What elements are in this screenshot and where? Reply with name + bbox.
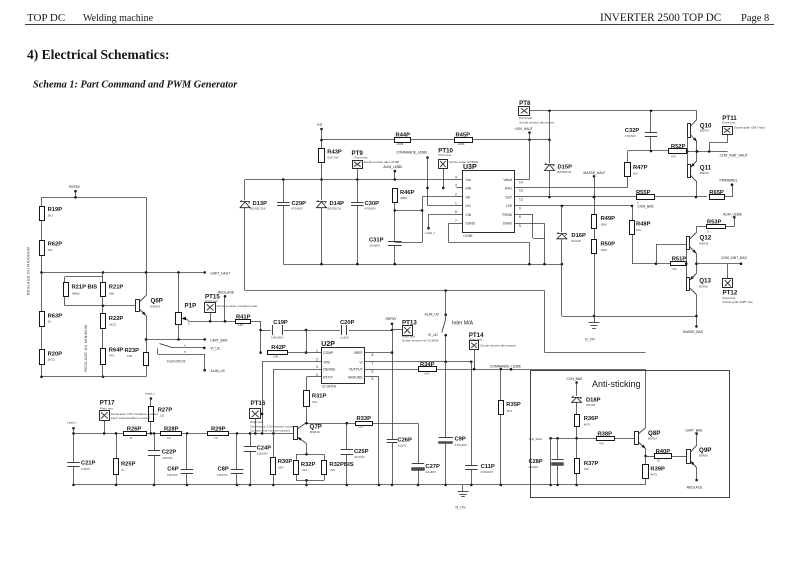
diode D18P [572,383,601,415]
ground M_15V left [585,316,600,342]
wire OUT net to output [522,196,637,199]
wire low driver base net [632,244,686,265]
resistor R52P [669,144,687,158]
svg-text:ALIM_L6386: ALIM_L6386 [723,212,742,216]
resistor R62P [40,241,63,256]
resistor R46P [393,189,415,242]
svg-text:5K3: 5K3 [48,213,54,217]
resistor R23P [125,348,149,366]
svg-text:HVG: HVG [505,186,513,190]
resistor R49P [592,215,616,229]
svg-text:Sonde tension alim basse: Sonde tension alim basse [480,343,516,347]
svg-text:M_15V: M_15V [585,338,596,342]
resistor R64P [101,348,124,365]
resistor R21P [101,283,124,297]
node REF5V [69,185,81,197]
svg-text:ALIM_L6386: ALIM_L6386 [383,165,402,169]
wire Vboot [522,179,530,181]
resistor R41P [236,314,251,327]
point test PT8 [519,100,555,125]
switch PalOnOff104 [158,343,207,371]
svg-text:47: 47 [129,436,133,440]
capacitor C21P [67,433,95,485]
svg-text:100K: 100K [458,142,466,146]
svg-text:BSR14: BSR14 [151,304,161,308]
svg-text:IN4148: IN4148 [571,239,580,243]
svg-text:CON_BAS: CON_BAS [567,377,584,381]
svg-text:1: 1 [316,348,318,352]
transistor Q7P [294,423,322,444]
wire CIN branch [427,214,456,229]
svg-text:R21P BIS: R21P BIS [72,285,98,291]
svg-text:TOP DC: TOP DC [27,12,65,24]
wire Q7P emitter to R32P pair [296,444,325,485]
resistor R20P [40,350,63,365]
svg-text:R37P: R37P [584,461,599,467]
wire R21P pair bottom to Q6P base [65,297,136,307]
resistor R25P [114,433,136,485]
wire P1P wiper to R41P [189,320,235,323]
svg-text:C8P: C8P [218,467,229,473]
svg-text:Anti-sticking: Anti-sticking [592,379,641,389]
header: document name [83,13,154,24]
U3P pin stubs and numbers [455,175,523,228]
resistor R44P [395,132,411,146]
transistor Q13 [687,274,712,295]
wire high-side rail [530,110,697,113]
svg-text:47: 47 [121,468,125,472]
node ALIM_L6386 label top [383,165,402,179]
wire Q6P emitter / R23P branch [145,316,148,377]
svg-text:4K75: 4K75 [584,422,591,426]
svg-text:Point test: Point test [355,156,368,160]
U2P pin stubs and numbers [315,348,374,381]
capacitor C25P [341,423,369,485]
svg-text:PT16: PT16 [251,400,266,407]
header rule [25,24,774,26]
resistor R42P [268,345,316,358]
resistor R33P [356,416,373,429]
svg-text:R22P: R22P [109,316,124,322]
svg-text:REF5V: REF5V [69,185,81,189]
wire net COM_IGBT_HAUT [686,135,747,158]
svg-text:8: 8 [372,353,374,357]
wire LIN branch [428,205,457,207]
svg-text:R62P: R62P [48,242,63,248]
point test PT11 [722,115,765,135]
svg-text:REGLAGE: REGLAGE [218,291,235,295]
svg-text:C22P: C22P [162,450,177,456]
svg-text:10n63V: 10n63V [217,473,229,477]
wire Anti_Stick net [529,437,635,485]
svg-text:BSR14: BSR14 [700,129,709,133]
svg-text:LIMIT_HAUT: LIMIT_HAUT [211,271,231,275]
resistor R55P [636,190,707,205]
svg-text:221: 221 [358,425,363,429]
svg-text:COM_IGBT_BAS: COM_IGBT_BAS [721,256,747,260]
svg-text:PRIMAIRE1: PRIMAIRE1 [720,179,738,183]
svg-text:R34P: R34P [420,362,435,368]
potentiometer P1P [176,272,197,339]
wire left vertical bus [41,197,43,376]
svg-text:47n63V: 47n63V [354,455,366,459]
svg-text:Vboot: Vboot [503,178,512,182]
svg-text:R26P: R26P [127,426,142,432]
svg-text:470: 470 [330,468,335,472]
node +15V_HAUT [514,127,533,180]
resistor R50P [592,240,616,254]
svg-text:C11P: C11P [481,464,495,470]
svg-text:10K: 10K [238,323,244,327]
resistor R38P [597,431,615,445]
svg-text:R20P: R20P [48,352,63,358]
wire MASSE_HALF vertical [593,176,596,317]
node PRIMAIRE1 [720,179,738,183]
svg-text:6: 6 [519,215,521,219]
svg-text:CIN: CIN [466,213,472,217]
svg-text:PT8: PT8 [519,100,531,107]
node Limit_I at U3P [425,231,434,235]
svg-text:100: 100 [633,172,638,176]
wire net LIMIT_HAUT [40,271,230,275]
svg-text:R44P: R44P [396,132,411,138]
svg-text:C21P: C21P [81,461,96,467]
svg-text:1u10V: 1u10V [398,444,408,448]
svg-text:6M62: 6M62 [72,292,80,296]
op-amp U2P (PWM controller UC3845N) [321,341,364,389]
wire ground rail [72,484,645,487]
svg-text:3: 3 [316,365,318,369]
resistor R21P BIS [64,283,98,297]
svg-text:Sonde tension alim L6386: Sonde tension alim L6386 [364,160,400,164]
schema subtitle [33,80,238,91]
svg-text:R21P: R21P [109,285,124,291]
wire net LIMIT_BAS [146,338,228,342]
svg-text:22u40V: 22u40V [426,470,438,474]
svg-text:C27P: C27P [425,464,440,470]
svg-text:221: 221 [302,468,307,472]
svg-text:BSR16: BSR16 [699,284,708,288]
capacitor C6P [167,433,193,485]
svg-text:M_15V: M_15V [456,506,467,510]
transistor Q12 [687,233,712,254]
svg-text:Vcc: Vcc [466,178,472,182]
node ALIM_UC [211,369,226,373]
svg-text:BZV55C3V6: BZV55C3V6 [250,207,266,211]
svg-text:1K: 1K [657,458,661,462]
capacitor C22P [148,433,177,485]
node REGLACE [687,468,704,490]
node COMMANDE_L6386 label top [396,150,429,205]
svg-text:221: 221 [48,248,53,252]
svg-text:SD: SD [466,195,471,199]
svg-text:330K: 330K [400,196,408,200]
wire SGND branch [449,223,530,264]
transistor Q11 [688,161,712,182]
point test PT10 [438,147,478,189]
capacitor C19P [271,320,288,340]
svg-text:470u30V: 470u30V [455,443,468,447]
point test PT13 [392,319,439,342]
svg-text:P1P: P1P [185,303,197,310]
svg-text:Imes_I: Imes_I [145,391,154,395]
svg-text:OUT: OUT [505,195,512,199]
svg-text:63K 2W: 63K 2W [327,156,338,160]
wire Q10 Q11 bases [686,138,689,165]
resistor R63P [40,312,63,327]
svg-text:5: 5 [372,377,374,381]
svg-text:R43P: R43P [327,149,342,155]
node VI_UC [210,347,221,351]
svg-text:3: 3 [455,184,457,188]
resistor R28P [161,426,182,440]
node LIMIT_BAS at Q9P [686,429,704,446]
svg-text:10n63V: 10n63V [167,473,179,477]
svg-text:10: 10 [167,436,171,440]
point test PT16 [250,400,296,434]
resistor R45P [455,132,473,146]
capacitor C28P [529,438,564,485]
switch Inter M/A [425,312,474,362]
capacitor C30P [351,180,379,265]
rotated label REGLAGE DU MAXIMUM [27,247,31,295]
svg-text:R53P: R53P [707,219,722,225]
wire Vcc rail into U3P [245,178,457,181]
svg-text:2: 2 [316,358,318,362]
svg-text:C25P: C25P [354,449,369,455]
svg-text:R63P: R63P [48,313,63,319]
svg-text:ALIM_UC: ALIM_UC [211,369,226,373]
capacitor C31P [369,238,402,265]
capacitor C32P [625,111,657,151]
svg-text:C24P: C24P [257,445,272,451]
svg-text:HIN: HIN [466,186,472,190]
svg-text:Point test: Point test [100,406,113,410]
svg-text:R52P: R52P [671,144,686,150]
svg-text:221: 221 [312,400,317,404]
svg-text:ISENSE: ISENSE [323,368,336,372]
capacitor C20P [340,320,355,340]
svg-text:IN4148: IN4148 [586,403,595,407]
resistor R43P [319,129,342,200]
svg-text:Page 8: Page 8 [741,13,769,24]
svg-text:R48P: R48P [636,222,651,228]
svg-text:R19P: R19P [48,207,63,213]
svg-text:VI_UC: VI_UC [428,333,439,337]
svg-text:BSR16: BSR16 [310,430,320,434]
svg-text:+15V_HAUT: +15V_HAUT [514,127,533,131]
resistor R65P [709,183,733,199]
svg-text:470n50V: 470n50V [365,207,376,211]
wire net COM_BAS [522,205,654,209]
wire net COM_IGBT_BAS [696,256,747,278]
svg-text:Sonde tension ref UC3845: Sonde tension ref UC3845 [402,338,439,342]
svg-text:Point test: Point test [722,121,735,125]
svg-text:R38P: R38P [598,431,613,437]
point test PT12 [723,279,754,305]
wire gate drive HVG net [522,150,669,188]
svg-text:BSR16: BSR16 [699,454,708,458]
wire SD branch [395,197,457,243]
transistor Q8P [635,428,661,449]
svg-text:100: 100 [636,228,641,232]
wire Q8P emitter R40P [644,449,686,458]
wire C19P C20P net [261,329,394,354]
svg-text:470n50V: 470n50V [292,207,303,211]
wire Q12 Q13 bases [685,250,688,278]
node REGLAGE [218,291,235,322]
svg-text:DvNG: DvNG [503,222,512,226]
wire low-side return [562,316,697,318]
svg-text:100K: 100K [601,248,608,252]
point test PT17 [100,400,158,434]
svg-text:3K3: 3K3 [507,409,513,413]
svg-text:REGLAGE DU MAXIMUM: REGLAGE DU MAXIMUM [27,247,31,295]
node ALIM_L6386 right [723,212,742,226]
svg-text:COMMANDE_L6386: COMMANDE_L6386 [490,364,521,368]
svg-text:RT/CT: RT/CT [323,376,333,380]
svg-text:R36P: R36P [584,416,599,422]
svg-text:Inject setai limitation couran: Inject setai limitation courant [111,416,150,420]
svg-text:Point test: Point test [439,153,452,157]
svg-text:VFB: VFB [323,360,330,364]
node CON_BAS [567,377,584,384]
svg-text:R41P: R41P [236,314,251,320]
svg-text:COM_IGBT_HAUT: COM_IGBT_HAUT [720,153,748,157]
svg-text:R45P: R45P [456,132,471,138]
resistor R32PBIS [322,461,354,475]
svg-text:R28P: R28P [164,426,179,432]
svg-text:COM_BAS: COM_BAS [638,205,655,209]
svg-text:R50P: R50P [601,241,616,247]
svg-text:VI: VI [359,360,362,364]
capacitor C29P [277,180,306,265]
svg-text:Welding machine: Welding machine [83,13,154,24]
resistor R53P [696,219,725,233]
node Imes_I [145,391,154,400]
svg-text:OUTPUT: OUTPUT [349,368,363,372]
transistor Q6P [136,296,163,316]
svg-text:C19P: C19P [273,320,288,326]
svg-text:SGND: SGND [466,222,476,226]
svg-text:1u16V: 1u16V [340,336,350,340]
svg-text:R35P: R35P [506,402,521,408]
resistor R34P [371,362,437,376]
header: manufacturer name [27,12,65,24]
svg-text:7: 7 [372,362,374,366]
svg-text:Sonde grille IGBT haut: Sonde grille IGBT haut [734,125,765,129]
wire MASSE return rail [283,263,563,266]
node REF5V at PT13 [386,317,398,325]
svg-text:470n50V: 470n50V [625,134,636,138]
svg-text:100K: 100K [397,142,405,146]
resistor R19P [40,207,63,221]
svg-text:470: 470 [671,155,676,159]
svg-text:BSR14: BSR14 [700,241,709,245]
svg-text:680: 680 [109,292,114,296]
svg-text:14: 14 [519,180,523,184]
svg-text:C31P: C31P [369,238,384,244]
svg-text:R42P: R42P [271,345,286,351]
svg-text:REGLAGE DU MINIMUM: REGLAGE DU MINIMUM [84,324,88,371]
svg-text:10: 10 [214,436,218,440]
svg-text:470: 470 [672,267,677,271]
svg-text:4K75: 4K75 [650,473,657,477]
resistor R47P [625,163,648,177]
svg-text:470: 470 [109,354,114,358]
svg-text:10K: 10K [127,354,133,358]
capacitor C27P [412,464,441,485]
svg-text:R25P: R25P [121,462,136,468]
svg-text:C6P: C6P [167,467,178,473]
svg-text:Limit_I: Limit_I [67,420,76,424]
svg-text:4: 4 [316,373,318,377]
svg-text:R49P: R49P [601,216,616,222]
svg-text:10n50V: 10n50V [370,244,382,248]
wire VI net [371,361,473,364]
resistor R27P [149,399,173,434]
resistor R51P [671,256,687,271]
svg-text:Schema 1: Part Command and PWM: Schema 1: Part Command and PWM Generator [33,80,238,91]
point test PT15 [205,293,258,321]
resistor R36P [575,415,599,439]
svg-text:R55P: R55P [636,190,651,196]
svg-text:COMP: COMP [323,351,334,355]
svg-text:LIMIT_BAS: LIMIT_BAS [686,429,704,433]
wire R21P pair top [65,272,104,282]
block box Anti-sticking [531,371,730,498]
wire current-sense rail Limit_I [72,432,294,435]
svg-text:LIMIT_BAS: LIMIT_BAS [210,338,228,342]
svg-text:R33P: R33P [357,416,372,422]
svg-text:R51P: R51P [672,256,687,262]
svg-text:100n50V: 100n50V [271,336,284,340]
svg-text:47K: 47K [599,442,604,446]
transistor Q10 [688,119,713,141]
svg-text:13: 13 [519,189,523,193]
wire VFB branch [261,362,315,434]
svg-text:4: 4 [455,175,457,179]
wire ALIM_UC feed [245,289,545,352]
svg-text:R65P: R65P [709,190,724,196]
svg-text:VI_UC: VI_UC [210,347,221,351]
resistor R22P [101,314,124,329]
svg-text:Anti_Stick: Anti_Stick [529,437,543,441]
svg-text:1Ω: 1Ω [160,414,165,418]
svg-text:LVS: LVS [506,204,513,208]
svg-text:2K21: 2K21 [48,358,56,362]
svg-text:10K: 10K [584,467,589,471]
node Limit_I [67,420,76,433]
resistor R39P [643,456,666,485]
svg-text:470n63V: 470n63V [481,470,494,474]
svg-text:Limit_I: Limit_I [425,231,434,235]
svg-text:Contact relai mesure courant: Contact relai mesure courant [250,429,290,433]
svg-text:VREF: VREF [354,351,363,355]
wire +15V rail to U3P [322,139,551,142]
svg-text:PGND: PGND [502,213,512,217]
svg-text:Sonde grille IGBT bas: Sonde grille IGBT bas [723,300,754,304]
svg-text:BSR14: BSR14 [648,437,657,441]
wire bottom-left horizontal [40,376,146,379]
svg-text:+HT: +HT [317,123,323,127]
svg-text:3K3: 3K3 [424,372,430,376]
capacitor C9P [439,362,468,485]
wire R41P to COMP column [251,321,262,354]
svg-text:9: 9 [519,206,521,210]
svg-text:GROUND: GROUND [348,376,363,380]
resistor R40P [655,449,672,463]
